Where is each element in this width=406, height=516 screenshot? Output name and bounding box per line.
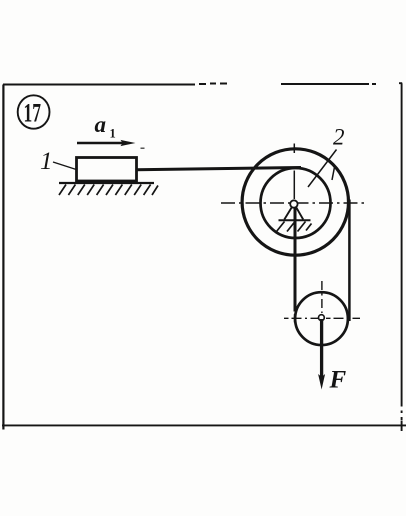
svg-text:17: 17 (24, 98, 42, 127)
lower pulley horizontal centerline (284, 317, 360, 319)
svg-text:1: 1 (110, 127, 116, 141)
svg-text:1: 1 (40, 148, 53, 175)
pulley 2 vertical centerline tick above rim (293, 144, 295, 154)
leader line from 1 to block (53, 162, 84, 172)
frame border top (3, 84, 376, 85)
tick at lower pulley left tangent (294, 314, 296, 323)
leader from 2 to inner rim (308, 150, 337, 188)
ground line (59, 182, 154, 184)
rope from block to pulley 2 inner rim (136, 168, 301, 170)
rope from axle down to lower pulley (294, 206, 297, 312)
support hatching (277, 222, 312, 232)
lower pulley vertical centerline (321, 281, 323, 313)
item number circle 17 (18, 95, 50, 128)
lower pulley rim (295, 292, 348, 345)
force F arrow (318, 319, 325, 390)
axle pin of pulley 2 (290, 200, 297, 207)
lower pulley axle pin (319, 315, 325, 321)
pulley 2 vertical centerline inside (293, 171, 295, 200)
acceleration label a1 (95, 112, 116, 141)
pulley 2 inner rim (261, 168, 331, 238)
fixed support triangle (284, 207, 303, 219)
rope from outer rim down to lower pulley (348, 200, 351, 322)
pulley 2 outer rim (242, 149, 348, 255)
svg-text:a: a (95, 112, 107, 137)
block 1 (77, 158, 137, 182)
svg-text:2: 2 (333, 125, 345, 150)
pulley 2 horizontal centerline (221, 202, 365, 204)
acceleration arrow (77, 140, 136, 146)
svg-text:F: F (329, 367, 347, 394)
support base line (279, 219, 311, 221)
frame border left (2, 85, 4, 430)
frame border bottom (2, 424, 406, 426)
scan speck near arrowhead (141, 147, 145, 149)
ground hatching (59, 185, 158, 196)
frame border right (399, 83, 402, 431)
leader from 2 to outer rim (332, 166, 335, 181)
